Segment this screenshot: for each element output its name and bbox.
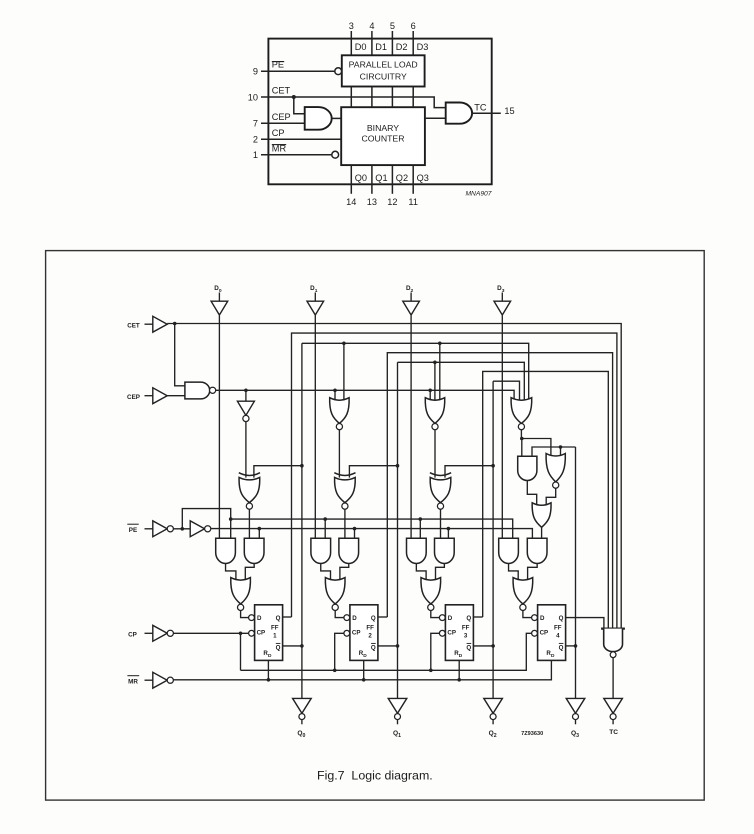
- wire output stub Q3: [575, 720, 577, 725]
- svg-text:Q: Q: [276, 615, 281, 622]
- junction MR rail FF3: [457, 678, 461, 682]
- svg-text:BINARY: BINARY: [367, 123, 399, 133]
- wire RD riser FF3: [458, 660, 460, 679]
- and-gate bit2 load: [407, 538, 427, 563]
- wire pin 6 to parallel load circuitry: [412, 31, 414, 55]
- wire nand to bit1 or input: [334, 390, 336, 399]
- wire CEP stub: [145, 395, 153, 397]
- wire CP rail: [241, 633, 532, 670]
- wire CP to FF1: [173, 632, 248, 634]
- wire hold drop bit2: [447, 529, 449, 539]
- wire bit3 enable to and input: [521, 439, 523, 457]
- wire PE stub: [145, 528, 153, 530]
- svg-text:CIRCUITRY: CIRCUITRY: [360, 72, 407, 82]
- wire D0 column down to load and-gate: [218, 316, 220, 539]
- wire counter Q1 to pin: [371, 165, 373, 194]
- wire pin 4 to parallel load circuitry: [371, 31, 373, 55]
- svg-text:Q: Q: [466, 615, 471, 622]
- svg-text:7Z93630: 7Z93630: [521, 731, 543, 737]
- junction CET branch: [292, 95, 296, 99]
- wire parallel load to counter D3: [412, 87, 414, 108]
- wire pin 3 to parallel load circuitry: [350, 31, 352, 55]
- junction Q0bar: [300, 644, 304, 648]
- inverter MR buffer: [153, 672, 167, 688]
- flip-flop FF2 (U3): [350, 605, 378, 661]
- wire Q2bar vertical: [492, 381, 494, 698]
- svg-text:CEP: CEP: [127, 394, 140, 401]
- wire FF4 Q output to TC gate: [566, 618, 604, 629]
- svg-text:10: 10: [248, 92, 258, 102]
- bubble bit3 mux nor: [520, 604, 526, 610]
- svg-text:D3: D3: [417, 42, 429, 52]
- junction bit2 xor feedback on Q2bar line: [491, 464, 495, 468]
- wire pin 5 to parallel load circuitry: [391, 31, 393, 55]
- wire bit1 load and to nor: [321, 564, 331, 582]
- wire bit3 and to or: [527, 481, 536, 506]
- wire PE load branch over second inverter: [182, 509, 230, 539]
- nor-gate bit3 mux: [513, 578, 533, 604]
- buffer D3 input triangle: [494, 301, 511, 315]
- nand-gate TC (5-input): [601, 627, 625, 629]
- wire pin 1 MR: [261, 154, 332, 156]
- bubble MR input: [332, 151, 339, 158]
- wire bit0 inverter to xor: [245, 422, 247, 478]
- wire bit2 nor to FF D input: [431, 611, 440, 618]
- wire load drop bit1: [324, 519, 326, 538]
- svg-text:14: 14: [346, 197, 356, 207]
- wire D2 label to buffer: [410, 293, 412, 301]
- wire D1 column down to load and-gate: [314, 316, 316, 539]
- buffer CET: [153, 316, 167, 332]
- wire Q1 feedback to TC gate: [387, 353, 612, 629]
- svg-text:15: 15: [504, 106, 514, 116]
- junction Q3bar: [574, 644, 578, 648]
- wire RD riser FF1: [267, 660, 269, 679]
- wire CP down to rail: [240, 633, 242, 670]
- wire Q0bar to bit1 or input: [343, 343, 345, 399]
- and-gate bit2 hold: [435, 538, 455, 563]
- svg-text:Q3: Q3: [417, 173, 429, 183]
- bubble output Q1: [395, 714, 401, 720]
- wire parallel load to counter D0: [350, 87, 352, 108]
- svg-text:11: 11: [408, 197, 418, 207]
- wire pin 2 CP: [261, 138, 341, 140]
- svg-text:7: 7: [253, 119, 258, 129]
- xor-gate bit2 toggle: [430, 473, 451, 476]
- junction bit0 xor feedback on Q0bar line: [300, 464, 304, 468]
- bubble bit0 mux nor: [238, 604, 244, 610]
- junction PE load branch: [181, 527, 185, 531]
- junction CP rail FF3: [429, 669, 433, 673]
- svg-text:CP: CP: [447, 630, 456, 637]
- wire bit0 hold and to nor: [245, 564, 254, 582]
- svg-text:CP: CP: [272, 128, 285, 138]
- svg-text:1: 1: [273, 633, 277, 640]
- wire Q3bar to cluster: [532, 447, 576, 456]
- bubble PE first inverter: [167, 526, 173, 532]
- junction load rail bit1: [323, 517, 327, 521]
- junction hold rail bit2: [447, 527, 451, 531]
- svg-text:D: D: [540, 615, 545, 622]
- wire Q2 feedback to TC gate: [483, 371, 609, 628]
- inverter output TC: [604, 698, 623, 713]
- svg-text:D1: D1: [375, 42, 387, 52]
- bubble TC gate: [610, 652, 616, 658]
- svg-text:CP: CP: [128, 631, 137, 638]
- buffer D0 input triangle: [211, 301, 228, 315]
- junction hold rail bit0: [258, 527, 262, 531]
- wire FF3 Q output: [473, 616, 482, 618]
- wire Q1bar rail to bit3 or: [398, 362, 525, 399]
- wire output stub Q1: [397, 720, 399, 725]
- wire and-gate to binary counter: [332, 117, 342, 119]
- svg-text:Q: Q: [466, 645, 471, 652]
- wire bit3 enable or to cluster: [520, 430, 522, 439]
- wire Q2bar rail to bit3 or: [493, 381, 519, 399]
- binary counter block: [341, 107, 425, 165]
- junction Q0bar to bit2 or: [438, 342, 442, 346]
- wire Q1bar vertical: [397, 362, 399, 698]
- wire Q1bar to bit2 or input: [434, 362, 436, 399]
- bubble bit1 xor output: [342, 503, 348, 509]
- inverter output Q1: [388, 698, 407, 713]
- wire bit3 nor to FF D input: [523, 611, 532, 618]
- svg-text:D: D: [448, 615, 453, 622]
- bubble PE input: [335, 68, 342, 75]
- nor-gate bit3 toggle B: [546, 454, 565, 482]
- bubble bit3 enable nor: [518, 424, 524, 430]
- junction Q3bar to nor input: [559, 445, 563, 449]
- junction bit3 enable split: [520, 437, 524, 441]
- wire hold drop bit1: [354, 529, 356, 539]
- inverter output Q2: [484, 698, 503, 713]
- svg-text:CEP: CEP: [272, 112, 291, 122]
- svg-text:Q: Q: [371, 615, 376, 622]
- wire Q0 feedback to TC gate: [292, 333, 617, 628]
- wire bit1 enable to xor: [338, 430, 340, 478]
- wire D0 label to buffer: [218, 293, 220, 301]
- wire nand rail to bit3 or-gate: [216, 390, 514, 399]
- and-gate bit3 toggle A: [518, 456, 537, 480]
- wire counter Q2 to pin: [391, 165, 393, 194]
- svg-text:D: D: [268, 653, 272, 659]
- junction CP rail FF2: [333, 669, 337, 673]
- svg-text:2: 2: [368, 633, 372, 640]
- bubble bit2 enable nor: [432, 424, 438, 430]
- buffer D1 input triangle: [307, 301, 324, 315]
- junction nand to bit2 or: [428, 389, 432, 393]
- junction CP rail branch: [239, 632, 243, 636]
- wire bit3 enable to nor input: [522, 439, 551, 457]
- wire bit0 xor feedback input: [254, 466, 302, 478]
- bubble PE second inverter: [205, 526, 211, 532]
- svg-text:D: D: [551, 653, 555, 659]
- svg-text:COUNTER: COUNTER: [362, 134, 405, 144]
- bubble bit2 xor output: [437, 503, 443, 509]
- nor-gate bit1 mux: [325, 578, 345, 604]
- wire CET branch to and-gate: [294, 97, 305, 114]
- junction load rail bit2: [419, 517, 423, 521]
- wire MR stub: [145, 679, 153, 681]
- wire RD riser FF2: [363, 660, 365, 679]
- bubble bit3 toggle nor: [553, 482, 559, 488]
- buffer CEP: [153, 388, 167, 404]
- wire TC to pin 15: [472, 112, 501, 114]
- wire CEP to nand: [167, 395, 185, 397]
- inverter output Q0: [293, 698, 312, 713]
- wire bit3 load and to nor: [509, 564, 519, 582]
- wire PE to second inverter: [173, 528, 190, 530]
- nor-gate bit2 count enable: [425, 398, 444, 424]
- svg-text:3: 3: [464, 633, 468, 640]
- wire TC gate to output buffer: [612, 658, 614, 699]
- junction nand to bit1 or: [333, 389, 337, 393]
- wire CET rail to TC gate: [167, 324, 621, 629]
- wire FF1 Qbar output: [283, 645, 302, 647]
- svg-text:3: 3: [349, 21, 354, 31]
- wire FF3 Qbar output: [473, 645, 493, 647]
- or-gate bit3 toggle combine: [532, 503, 551, 528]
- wire Q3bar vertical: [575, 447, 577, 698]
- wire load drop bit2: [419, 519, 421, 538]
- wire CP stub: [145, 632, 153, 634]
- wire bit2 load and to nor: [416, 564, 426, 582]
- svg-text:FF: FF: [366, 624, 374, 631]
- bubble output Q2: [490, 714, 496, 720]
- and-gate TC: [446, 103, 472, 124]
- xor-gate bit0 toggle: [239, 473, 260, 476]
- svg-text:Q2: Q2: [396, 173, 408, 183]
- svg-text:4: 4: [556, 633, 560, 640]
- svg-text:Q: Q: [559, 615, 564, 622]
- wire CP riser FF3: [431, 633, 439, 670]
- bubble bit1 mux nor: [332, 604, 338, 610]
- inverter bit0 enable: [237, 401, 254, 415]
- wire counter to TC and-gate: [425, 117, 446, 119]
- nor-gate bit1 count enable: [330, 398, 349, 424]
- wire bit1 hold and to nor: [340, 564, 349, 582]
- and-gate bit1 hold: [339, 538, 359, 563]
- wire FF2 Qbar output: [378, 645, 398, 647]
- wire bit2 xor feedback input: [445, 466, 493, 478]
- wire output stub TC: [612, 720, 614, 725]
- junction nand to bit0 inverter: [244, 389, 248, 393]
- bubble bit2 mux nor: [428, 604, 434, 610]
- svg-text:D0: D0: [355, 42, 367, 52]
- nor-gate bit3 count enable: [511, 398, 532, 424]
- wire MR rail: [173, 660, 551, 679]
- junction Q1bar: [396, 644, 400, 648]
- wire CET branch to nand: [175, 324, 185, 386]
- svg-text:Q1: Q1: [375, 173, 387, 183]
- wire bit0 xor to hold and-gate: [248, 509, 250, 538]
- junction Q1bar to bit2 or: [433, 361, 437, 365]
- flip-flop FF4 (U5): [538, 605, 566, 661]
- nor-gate bit0 mux: [231, 578, 251, 604]
- wire CET stub: [145, 323, 153, 325]
- and-gate CET/CEP: [305, 107, 332, 130]
- wire nand to bit2 or input: [429, 390, 431, 399]
- wire D2 column down to load and-gate: [410, 316, 412, 539]
- bubble output Q3: [573, 714, 579, 720]
- wire counter Q0 to pin: [350, 165, 352, 194]
- wire bit2 hold and to nor: [436, 564, 445, 582]
- svg-text:FF: FF: [271, 624, 279, 631]
- junction CET to nand: [173, 322, 177, 326]
- wire pin 10 CET to TC and-gate: [261, 97, 446, 108]
- svg-text:Q: Q: [559, 645, 564, 652]
- and-gate bit1 load: [311, 538, 331, 563]
- bubble nand output: [210, 387, 216, 393]
- wire FF4 Qbar output: [566, 645, 576, 647]
- svg-text:FF: FF: [462, 624, 470, 631]
- wire parallel load to counter D2: [391, 87, 393, 108]
- wire pin 9 PE: [261, 70, 335, 72]
- inverter PE first: [153, 521, 167, 537]
- bubble bit0 inverter: [243, 415, 249, 421]
- wire Q3bar to nor input drop: [560, 447, 562, 456]
- svg-text:4: 4: [369, 21, 374, 31]
- svg-text:TC: TC: [474, 103, 487, 113]
- wire Q0bar vertical: [301, 343, 303, 698]
- svg-text:PE: PE: [129, 527, 137, 534]
- svg-text:CP: CP: [257, 630, 266, 637]
- svg-text:9: 9: [253, 67, 258, 77]
- svg-text:12: 12: [387, 197, 397, 207]
- bubble CP buffer: [167, 630, 173, 636]
- wire D3 label to buffer: [501, 293, 503, 301]
- inverter output Q3: [566, 698, 585, 713]
- svg-text:Q: Q: [276, 645, 281, 652]
- svg-text:D2: D2: [396, 42, 408, 52]
- svg-text:MR: MR: [128, 678, 138, 685]
- svg-text:CET: CET: [127, 322, 140, 329]
- and-gate bit3 load: [499, 538, 519, 563]
- wire output stub Q0: [301, 720, 303, 725]
- buffer D2 input triangle: [403, 301, 420, 315]
- svg-text:1: 1: [253, 150, 258, 160]
- and-gate bit3 hold: [527, 538, 547, 563]
- svg-text:5: 5: [390, 21, 395, 31]
- wire load rail: [231, 519, 513, 538]
- wire Q0bar to bit2 or input: [439, 343, 441, 399]
- nand-gate CET-CEP U1: [185, 382, 210, 399]
- junction Q0bar to bit1 or: [342, 342, 346, 346]
- junction MR rail FF2: [362, 678, 366, 682]
- svg-text:13: 13: [367, 197, 377, 207]
- svg-text:PARALLEL LOAD: PARALLEL LOAD: [349, 59, 418, 69]
- wire nand to bit0 inverter: [245, 390, 247, 401]
- inverter CP buffer: [153, 625, 167, 641]
- junction MR rail FF1: [267, 678, 271, 682]
- svg-text:Fig.7 Logic diagram.: Fig.7 Logic diagram.: [317, 768, 433, 782]
- wire hold drop bit0: [258, 529, 260, 539]
- wire bit1 xor feedback input: [349, 466, 397, 478]
- wire bit1 xor to hold and-gate: [344, 509, 346, 538]
- wire hold rail: [211, 529, 533, 539]
- bubble output TC: [610, 714, 616, 720]
- wire pin 7 CEP: [261, 122, 305, 124]
- svg-text:FF: FF: [554, 624, 562, 631]
- bubble MR buffer: [167, 677, 173, 683]
- bubble output Q0: [299, 714, 305, 720]
- wire bit3 hold and to nor: [528, 564, 538, 582]
- flip-flop FF3 (U4): [445, 605, 473, 661]
- svg-text:2: 2: [253, 135, 258, 145]
- and-gate bit0 load: [216, 538, 236, 563]
- wire CP riser FF2: [335, 633, 344, 670]
- svg-text:MNA907: MNA907: [465, 191, 491, 198]
- wire FF2 Q output: [378, 616, 387, 618]
- svg-text:D: D: [459, 653, 463, 659]
- wire counter Q3 to pin: [412, 165, 414, 194]
- svg-text:CET: CET: [272, 86, 291, 96]
- junction bit1 xor feedback on Q1bar line: [396, 464, 400, 468]
- wire FF1 Q output: [283, 616, 292, 618]
- junction hold rail bit1: [353, 527, 357, 531]
- wire bit3 or to hold and-gate: [541, 527, 543, 538]
- svg-text:CP: CP: [352, 630, 361, 637]
- figure 7 frame: [46, 251, 705, 801]
- wire D3 column down to load and-gate: [501, 316, 503, 539]
- bubble bit0 xor output: [246, 503, 252, 509]
- bubble bit1 enable nor: [336, 424, 342, 430]
- wire bit1 nor to FF D input: [335, 611, 344, 618]
- xor-gate bit1 toggle: [334, 473, 355, 476]
- svg-text:D: D: [352, 615, 357, 622]
- wire parallel load to counter D1: [371, 87, 373, 108]
- wire bit2 xor to hold and-gate: [440, 509, 442, 538]
- wire output stub Q2: [492, 720, 494, 725]
- junction Q2bar: [491, 644, 495, 648]
- svg-text:D: D: [363, 653, 367, 659]
- svg-text:Q: Q: [371, 645, 376, 652]
- svg-text:Q0: Q0: [355, 173, 367, 183]
- and-gate bit0 hold: [244, 538, 264, 563]
- flip-flop FF1 (U2): [255, 605, 283, 661]
- wire bit0 nor to FF D input: [241, 611, 249, 618]
- parallel load circuitry block: [342, 55, 425, 86]
- wire bit0 load and to nor: [226, 564, 236, 582]
- svg-text:CP: CP: [540, 630, 549, 637]
- wire bit3 nor to or: [546, 488, 556, 505]
- nor-gate bit2 mux: [421, 578, 441, 604]
- inverter PE second: [190, 521, 204, 537]
- functional diagram outer box: [268, 39, 491, 185]
- wire D1 label to buffer: [314, 293, 316, 301]
- svg-text:D: D: [257, 615, 262, 622]
- wire bit2 enable to xor: [434, 430, 436, 478]
- wire Q0bar rail to bit3 or: [302, 343, 529, 399]
- svg-text:TC: TC: [609, 729, 618, 736]
- junction load rail start: [229, 517, 233, 521]
- svg-text:6: 6: [411, 21, 416, 31]
